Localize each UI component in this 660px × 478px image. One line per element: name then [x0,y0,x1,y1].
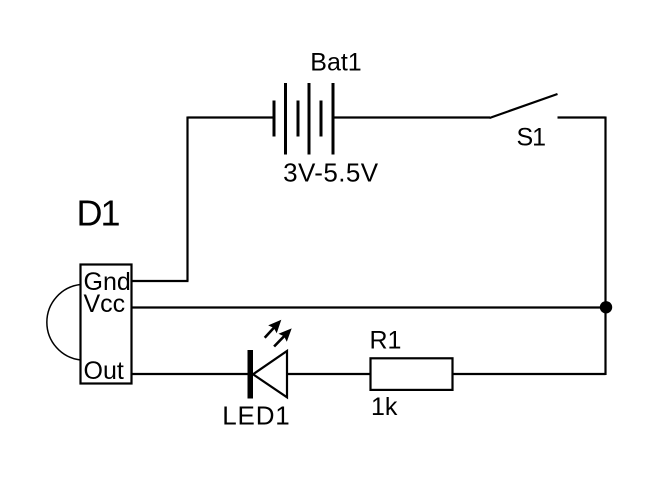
wire battery-left to top-left corner [188,116,275,118]
svg-text:Out: Out [84,357,124,385]
svg-text:Vcc: Vcc [84,290,126,318]
LED1 emission arrow 2 [274,328,292,346]
svg-text:1k: 1k [371,393,398,421]
wire Gnd pin to riser [132,280,189,282]
wire resistor to right vertical [453,373,606,375]
resistor R1 body [371,358,453,390]
svg-text:S1: S1 [517,124,546,152]
svg-text:R1: R1 [370,327,402,355]
svg-text:Bat1: Bat1 [310,49,361,77]
svg-text:LED1: LED1 [222,401,290,431]
IC D1 sensor dome arc [47,285,81,361]
LED1 cathode bar [248,350,254,399]
svg-text:D1: D1 [77,193,120,234]
LED1 triangle [253,351,287,397]
LED1 emission arrow 1 [265,320,282,338]
wire LED to resistor [287,373,370,375]
wire Out pin to LED [132,373,249,375]
wire Vcc pin to junction [132,306,606,308]
IC D1 body [81,265,132,384]
svg-text:3V-5.5V: 3V-5.5V [283,158,379,188]
wire left vertical (gnd riser) [186,117,188,282]
junction node [600,301,612,313]
wire battery-right to switch [333,116,490,118]
wire switch right contact [558,116,606,118]
battery Bat1 cell plates [274,83,333,155]
wire right vertical [604,117,606,376]
switch S1 blade [490,94,558,118]
